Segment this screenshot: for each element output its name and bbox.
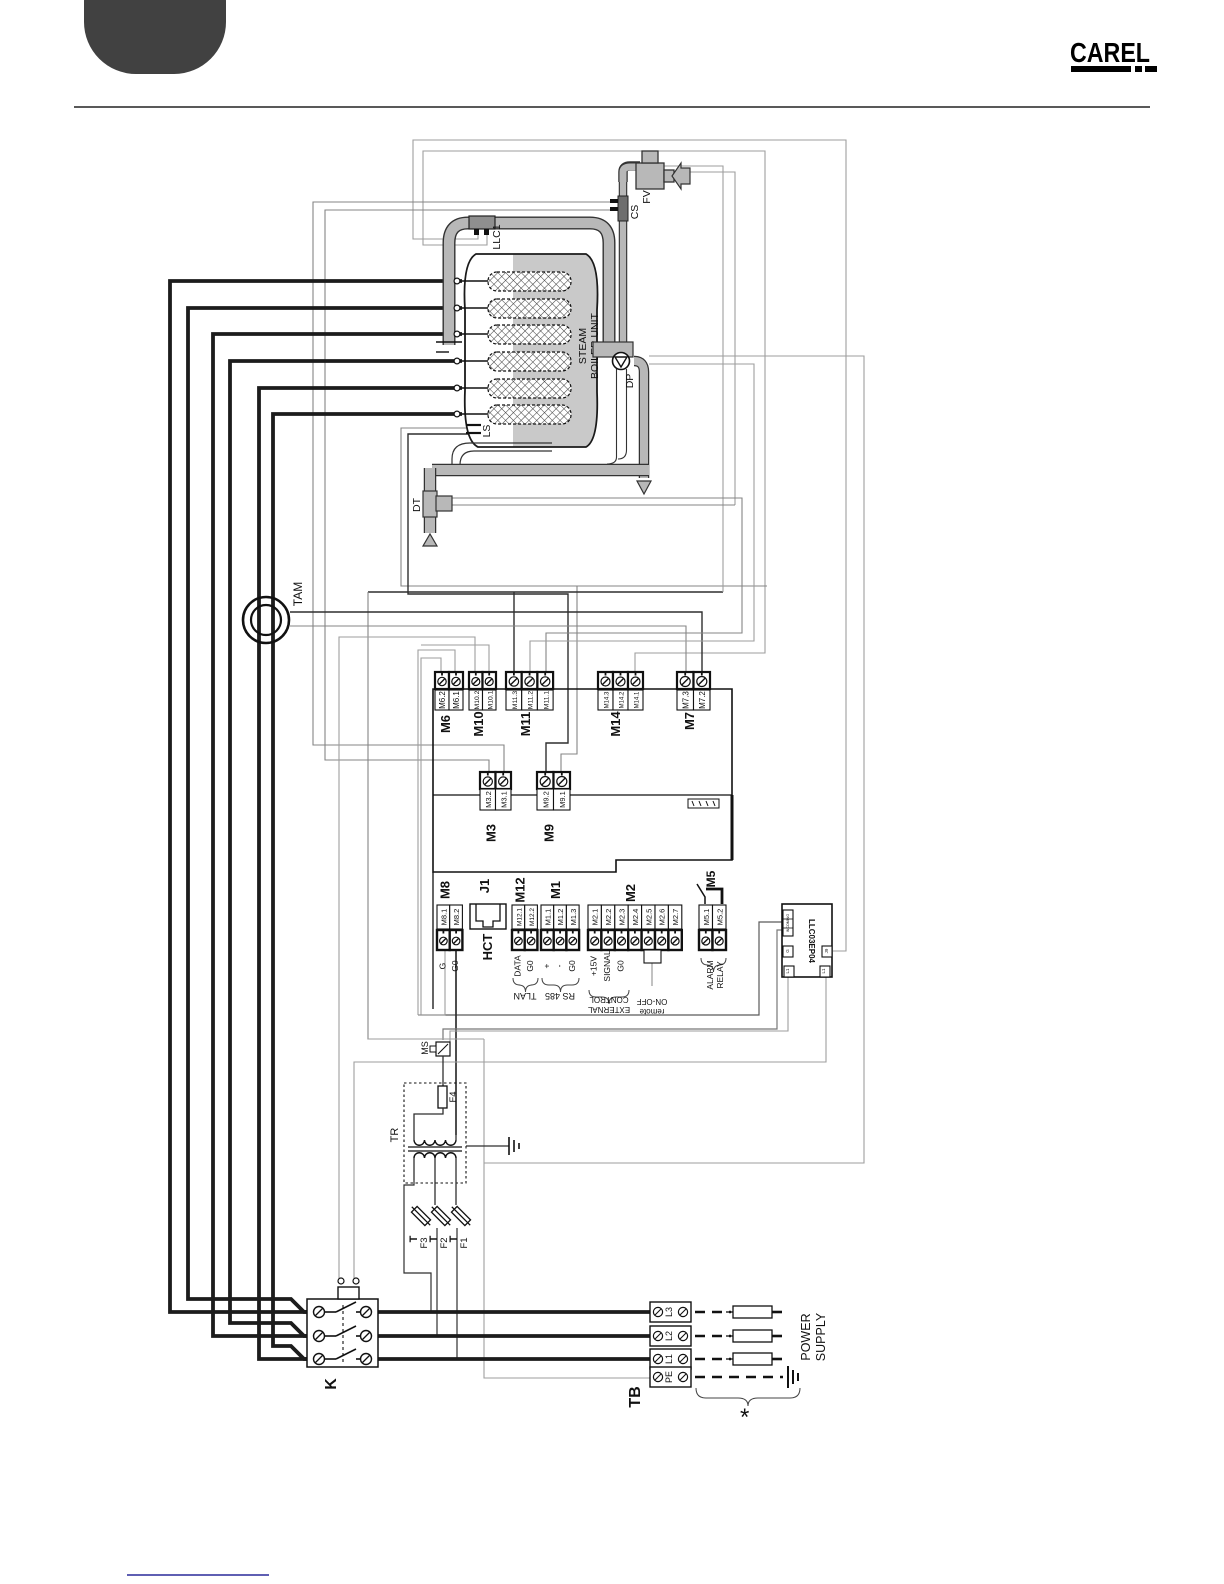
svg-text:M2.2: M2.2 <box>604 909 613 926</box>
terminal block M3 <box>480 772 496 789</box>
footer link line <box>127 1574 269 1576</box>
svg-text:HCT: HCT <box>480 934 495 961</box>
electrode element 2 <box>488 299 571 318</box>
svg-text:M7.3: M7.3 <box>681 691 690 709</box>
svg-text:POWER: POWER <box>799 1313 813 1360</box>
CS conductivity sensor <box>618 196 628 221</box>
electrode element 1 <box>488 272 571 291</box>
svg-text:L1: L1 <box>821 968 826 974</box>
wire M10.1 left drop <box>421 645 489 672</box>
svg-text:J9: J9 <box>824 948 829 953</box>
svg-text:T: T <box>408 1235 420 1242</box>
svg-text:M1.3: M1.3 <box>569 909 578 926</box>
svg-text:CAREL: CAREL <box>1070 37 1150 68</box>
svg-text:M10.1: M10.1 <box>487 690 494 709</box>
fuse F2 <box>429 1204 453 1228</box>
terminal block M2 <box>588 905 601 929</box>
svg-text:LLC03EP04: LLC03EP04 <box>807 919 816 964</box>
svg-text:F4: F4 <box>448 1091 459 1102</box>
svg-text:J1: J1 <box>477 879 492 893</box>
svg-text:M2.6: M2.6 <box>658 909 667 926</box>
svg-text:M3.1: M3.1 <box>499 791 508 808</box>
wire MS to LLC03 G pin (dark) <box>443 930 783 1040</box>
svg-text:MS: MS <box>420 1041 430 1055</box>
wire transformer ground <box>466 1145 509 1147</box>
relay contact M5 <box>697 884 705 904</box>
wire M10.2 left drop to contactor coil <box>339 637 475 1281</box>
wire M6.2 left drop <box>421 658 441 1015</box>
svg-text:M8.2: M8.2 <box>452 909 461 926</box>
wire MS to F4 <box>442 1056 444 1086</box>
svg-text:G0: G0 <box>616 960 626 972</box>
svg-text:ON-OFF: ON-OFF <box>637 997 668 1006</box>
wire TAM s1 to M7.2 (dark) <box>290 612 702 672</box>
wire to TB PE <box>484 1039 652 1378</box>
TB L1 <box>650 1349 691 1369</box>
svg-text:M14.1: M14.1 <box>635 691 641 708</box>
svg-text:M11: M11 <box>518 712 533 737</box>
svg-text:FV: FV <box>641 190 653 203</box>
svg-text:LS: LS <box>481 425 493 438</box>
wire LLC03 L1 left pin <box>450 977 788 1042</box>
supply dashes + line fuses <box>695 1311 731 1314</box>
wire LLC1 pin2 loop to M14 <box>423 151 765 672</box>
wire remote on-off drop <box>651 963 653 986</box>
wire electrode 2 <box>188 308 462 1312</box>
svg-text:T: T <box>428 1235 440 1242</box>
boiler drain white pipe <box>452 443 552 465</box>
line fuse L1 <box>733 1353 772 1365</box>
jumper box on M2.4-M2.5 <box>644 950 661 963</box>
terminal block M12 <box>512 905 525 929</box>
svg-text:CS: CS <box>629 205 641 220</box>
wire LS tick2 to M9.2 (dark) <box>408 434 568 772</box>
LLC03EP04 interface board <box>782 904 832 977</box>
drain outlet pipe <box>634 361 644 478</box>
TAM current transformer <box>243 597 289 643</box>
terminal block <box>699 905 713 929</box>
TB L3 <box>650 1302 691 1322</box>
MS fuse holder <box>436 1042 450 1056</box>
svg-text:CONTROL: CONTROL <box>589 995 629 1004</box>
svg-text:G0: G0 <box>450 960 460 972</box>
wire F1 to row3 <box>456 1228 458 1359</box>
wire LLC03 L1 right pin to contactor coil <box>354 977 826 1281</box>
wire contactor to TB L1 <box>378 1357 652 1361</box>
terminal block M8 <box>437 905 450 929</box>
svg-text:G: G <box>785 949 790 953</box>
svg-text:M6.2: M6.2 <box>438 691 447 709</box>
svg-text:M14: M14 <box>608 711 623 737</box>
svg-text:M11.1: M11.1 <box>543 691 550 710</box>
svg-text:M8: M8 <box>438 881 453 899</box>
svg-text:K: K <box>323 1378 340 1390</box>
svg-text:RELAY: RELAY <box>715 961 725 989</box>
wire contactor to TB L2 <box>378 1334 652 1338</box>
svg-text:INCOMING: INCOMING <box>786 914 790 933</box>
terminal block M10 <box>469 672 483 689</box>
header rule <box>74 106 1150 108</box>
svg-text:M10.2: M10.2 <box>474 690 481 709</box>
pump outlet white pipe <box>607 369 617 464</box>
svg-text:EXTERNAL: EXTERNAL <box>587 1005 630 1014</box>
fuse F3 <box>409 1204 433 1228</box>
svg-text:DT: DT <box>411 497 423 512</box>
svg-text:M2: M2 <box>623 884 638 902</box>
wire M8 G to LLC03 incoming <box>418 922 783 1015</box>
svg-text:M12: M12 <box>513 877 528 902</box>
svg-text:M7.2: M7.2 <box>698 691 707 709</box>
wire electrode 5 <box>259 388 462 1359</box>
svg-text:M5: M5 <box>704 870 718 887</box>
terminal block M1 <box>541 905 554 929</box>
svg-text:M3.2: M3.2 <box>484 791 493 808</box>
wire M11.3 black distribution <box>368 591 723 593</box>
line fuse L3 <box>733 1306 772 1318</box>
ground symbol at TR <box>508 1137 510 1155</box>
transformer TR <box>404 1083 466 1183</box>
wire electrode 6 <box>273 414 462 1359</box>
svg-text:LLC1: LLC1 <box>491 224 503 249</box>
svg-text:M1.1: M1.1 <box>543 909 552 926</box>
LLC1 level sensor <box>469 216 495 229</box>
primary winding <box>414 1140 456 1145</box>
electrode element 3 <box>488 325 571 344</box>
line fuse L2 <box>733 1330 772 1342</box>
TB PE <box>650 1367 691 1387</box>
svg-text:*: * <box>740 1404 749 1431</box>
wire F2 to row2 <box>436 1228 438 1336</box>
terminal block M11 <box>506 672 522 689</box>
ground symbol power supply <box>787 1366 789 1388</box>
svg-text:+: + <box>541 963 551 968</box>
LS level sensor ticks <box>466 424 481 426</box>
wire contactor to TB L3 <box>378 1310 652 1314</box>
svg-text:M11.3: M11.3 <box>512 691 519 710</box>
HCT J1 jack <box>470 904 506 929</box>
svg-text:F1: F1 <box>459 1237 470 1248</box>
fill/CS pipe vertical <box>619 178 628 350</box>
svg-text:M2.7: M2.7 <box>671 909 680 926</box>
svg-text:T: T <box>448 1235 460 1242</box>
electrode element 6 <box>488 405 571 424</box>
wire F3 to contactor output row1 <box>404 1180 431 1312</box>
wire DP pump 1 (right loop) <box>484 356 864 1163</box>
bottom fitting / fill cup <box>593 342 633 357</box>
svg-text:M10: M10 <box>471 711 486 736</box>
svg-text:L1: L1 <box>785 968 790 974</box>
wire electrode 4 <box>230 361 462 1336</box>
svg-text:M6: M6 <box>438 715 453 733</box>
wire junction to PE drop <box>368 1038 484 1040</box>
wire LLC1 pin1 loop to LLC03 board J9 <box>413 140 846 951</box>
fill valve FV <box>623 166 640 182</box>
svg-text:M2.3: M2.3 <box>618 909 627 926</box>
wire electrode 1 <box>170 281 462 1312</box>
drain pump DP <box>613 353 630 370</box>
contactor K <box>307 1299 378 1367</box>
svg-text:M9: M9 <box>542 824 557 842</box>
wire CS pin2 to M3.2 <box>325 210 614 772</box>
wire TAM s2 to M7.3 <box>290 626 686 672</box>
svg-text:G0: G0 <box>567 960 577 972</box>
svg-text:DP: DP <box>624 374 636 389</box>
svg-text:TLAN: TLAN <box>513 991 536 1001</box>
drain tempering DT valve <box>424 468 437 533</box>
brace under supply <box>696 1388 800 1406</box>
steam boiler barrel <box>464 254 597 447</box>
electrode element 5 <box>488 379 571 398</box>
svg-text:M14.2: M14.2 <box>620 691 626 708</box>
svg-text:M9.2: M9.2 <box>541 791 550 808</box>
steam outlet pipe arch <box>449 223 609 345</box>
wire electrode 3 <box>213 334 462 1336</box>
fuse F1 <box>449 1204 473 1228</box>
water inlet arrow <box>672 163 690 189</box>
svg-text:SUPPLY: SUPPLY <box>814 1312 828 1361</box>
wire DP pump 2 to M11.2 <box>530 364 754 672</box>
svg-text:DATA: DATA <box>512 955 522 977</box>
svg-text:ALARM: ALARM <box>705 960 715 989</box>
terminal block M6 <box>435 672 449 689</box>
svg-text:M5.2: M5.2 <box>715 909 724 926</box>
terminal block M7 <box>677 672 694 689</box>
svg-text:G: G <box>437 963 447 970</box>
svg-text:+15V: +15V <box>589 956 599 976</box>
steam pipe boiler tick <box>436 341 462 343</box>
svg-text:STEAM: STEAM <box>577 328 589 364</box>
svg-text:RS 485: RS 485 <box>545 991 575 1001</box>
svg-text:SIGNAL: SIGNAL <box>602 950 612 981</box>
braces + function labels <box>513 978 538 992</box>
svg-text:M3: M3 <box>484 824 499 842</box>
svg-text:L2: L2 <box>664 1331 674 1341</box>
wire M8 G0 to transformer primary (black) <box>455 950 457 1135</box>
drain horizontal pipe <box>432 464 649 477</box>
board lower section <box>432 872 434 1009</box>
svg-text:L1: L1 <box>664 1354 674 1364</box>
svg-text:-: - <box>554 964 564 967</box>
svg-text:M5.1: M5.1 <box>702 909 711 926</box>
electrode terminal circles <box>454 278 460 284</box>
svg-text:M9.1: M9.1 <box>558 791 567 808</box>
svg-text:M6.1: M6.1 <box>452 691 461 709</box>
contactor coil <box>338 1287 359 1299</box>
electrode element 4 <box>488 352 571 371</box>
wire DT 1 to M11.1 <box>452 498 742 672</box>
svg-text:PE: PE <box>664 1371 674 1383</box>
TB L2 <box>650 1326 691 1346</box>
svg-text:L3: L3 <box>664 1307 674 1317</box>
svg-text:remote: remote <box>639 1007 664 1016</box>
wire CS pin1 to M3.1 <box>313 202 614 772</box>
svg-text:M8.1: M8.1 <box>439 909 448 926</box>
svg-text:TR: TR <box>389 1128 401 1143</box>
svg-text:M12.1: M12.1 <box>516 908 523 926</box>
small 4-pin connector <box>688 799 719 808</box>
svg-text:G0: G0 <box>525 960 535 972</box>
svg-text:M2.1: M2.1 <box>591 909 600 926</box>
wire LS tick1 to M9.1 <box>401 428 767 586</box>
svg-text:M7: M7 <box>682 712 697 730</box>
svg-text:TAM: TAM <box>291 582 305 606</box>
svg-text:M12.2: M12.2 <box>529 908 536 926</box>
svg-text:M1.2: M1.2 <box>556 909 565 926</box>
controller board outline <box>433 689 732 872</box>
svg-text:TB: TB <box>627 1386 644 1407</box>
terminal block M14 <box>598 672 613 689</box>
wire M6.1 left drop <box>418 650 455 1015</box>
wire FV coil 1 <box>654 166 723 592</box>
svg-text:M14.3: M14.3 <box>605 691 611 708</box>
svg-text:M11.2: M11.2 <box>528 691 535 710</box>
svg-text:M1: M1 <box>548 881 563 899</box>
header logo blob <box>84 0 226 74</box>
wire DT 2 <box>452 504 735 506</box>
terminal block M9 <box>537 772 554 789</box>
fuse F4 <box>438 1086 447 1108</box>
svg-text:M2.4: M2.4 <box>631 909 640 926</box>
wire FV coil 2 <box>654 172 735 505</box>
svg-text:M2.5: M2.5 <box>644 909 653 926</box>
